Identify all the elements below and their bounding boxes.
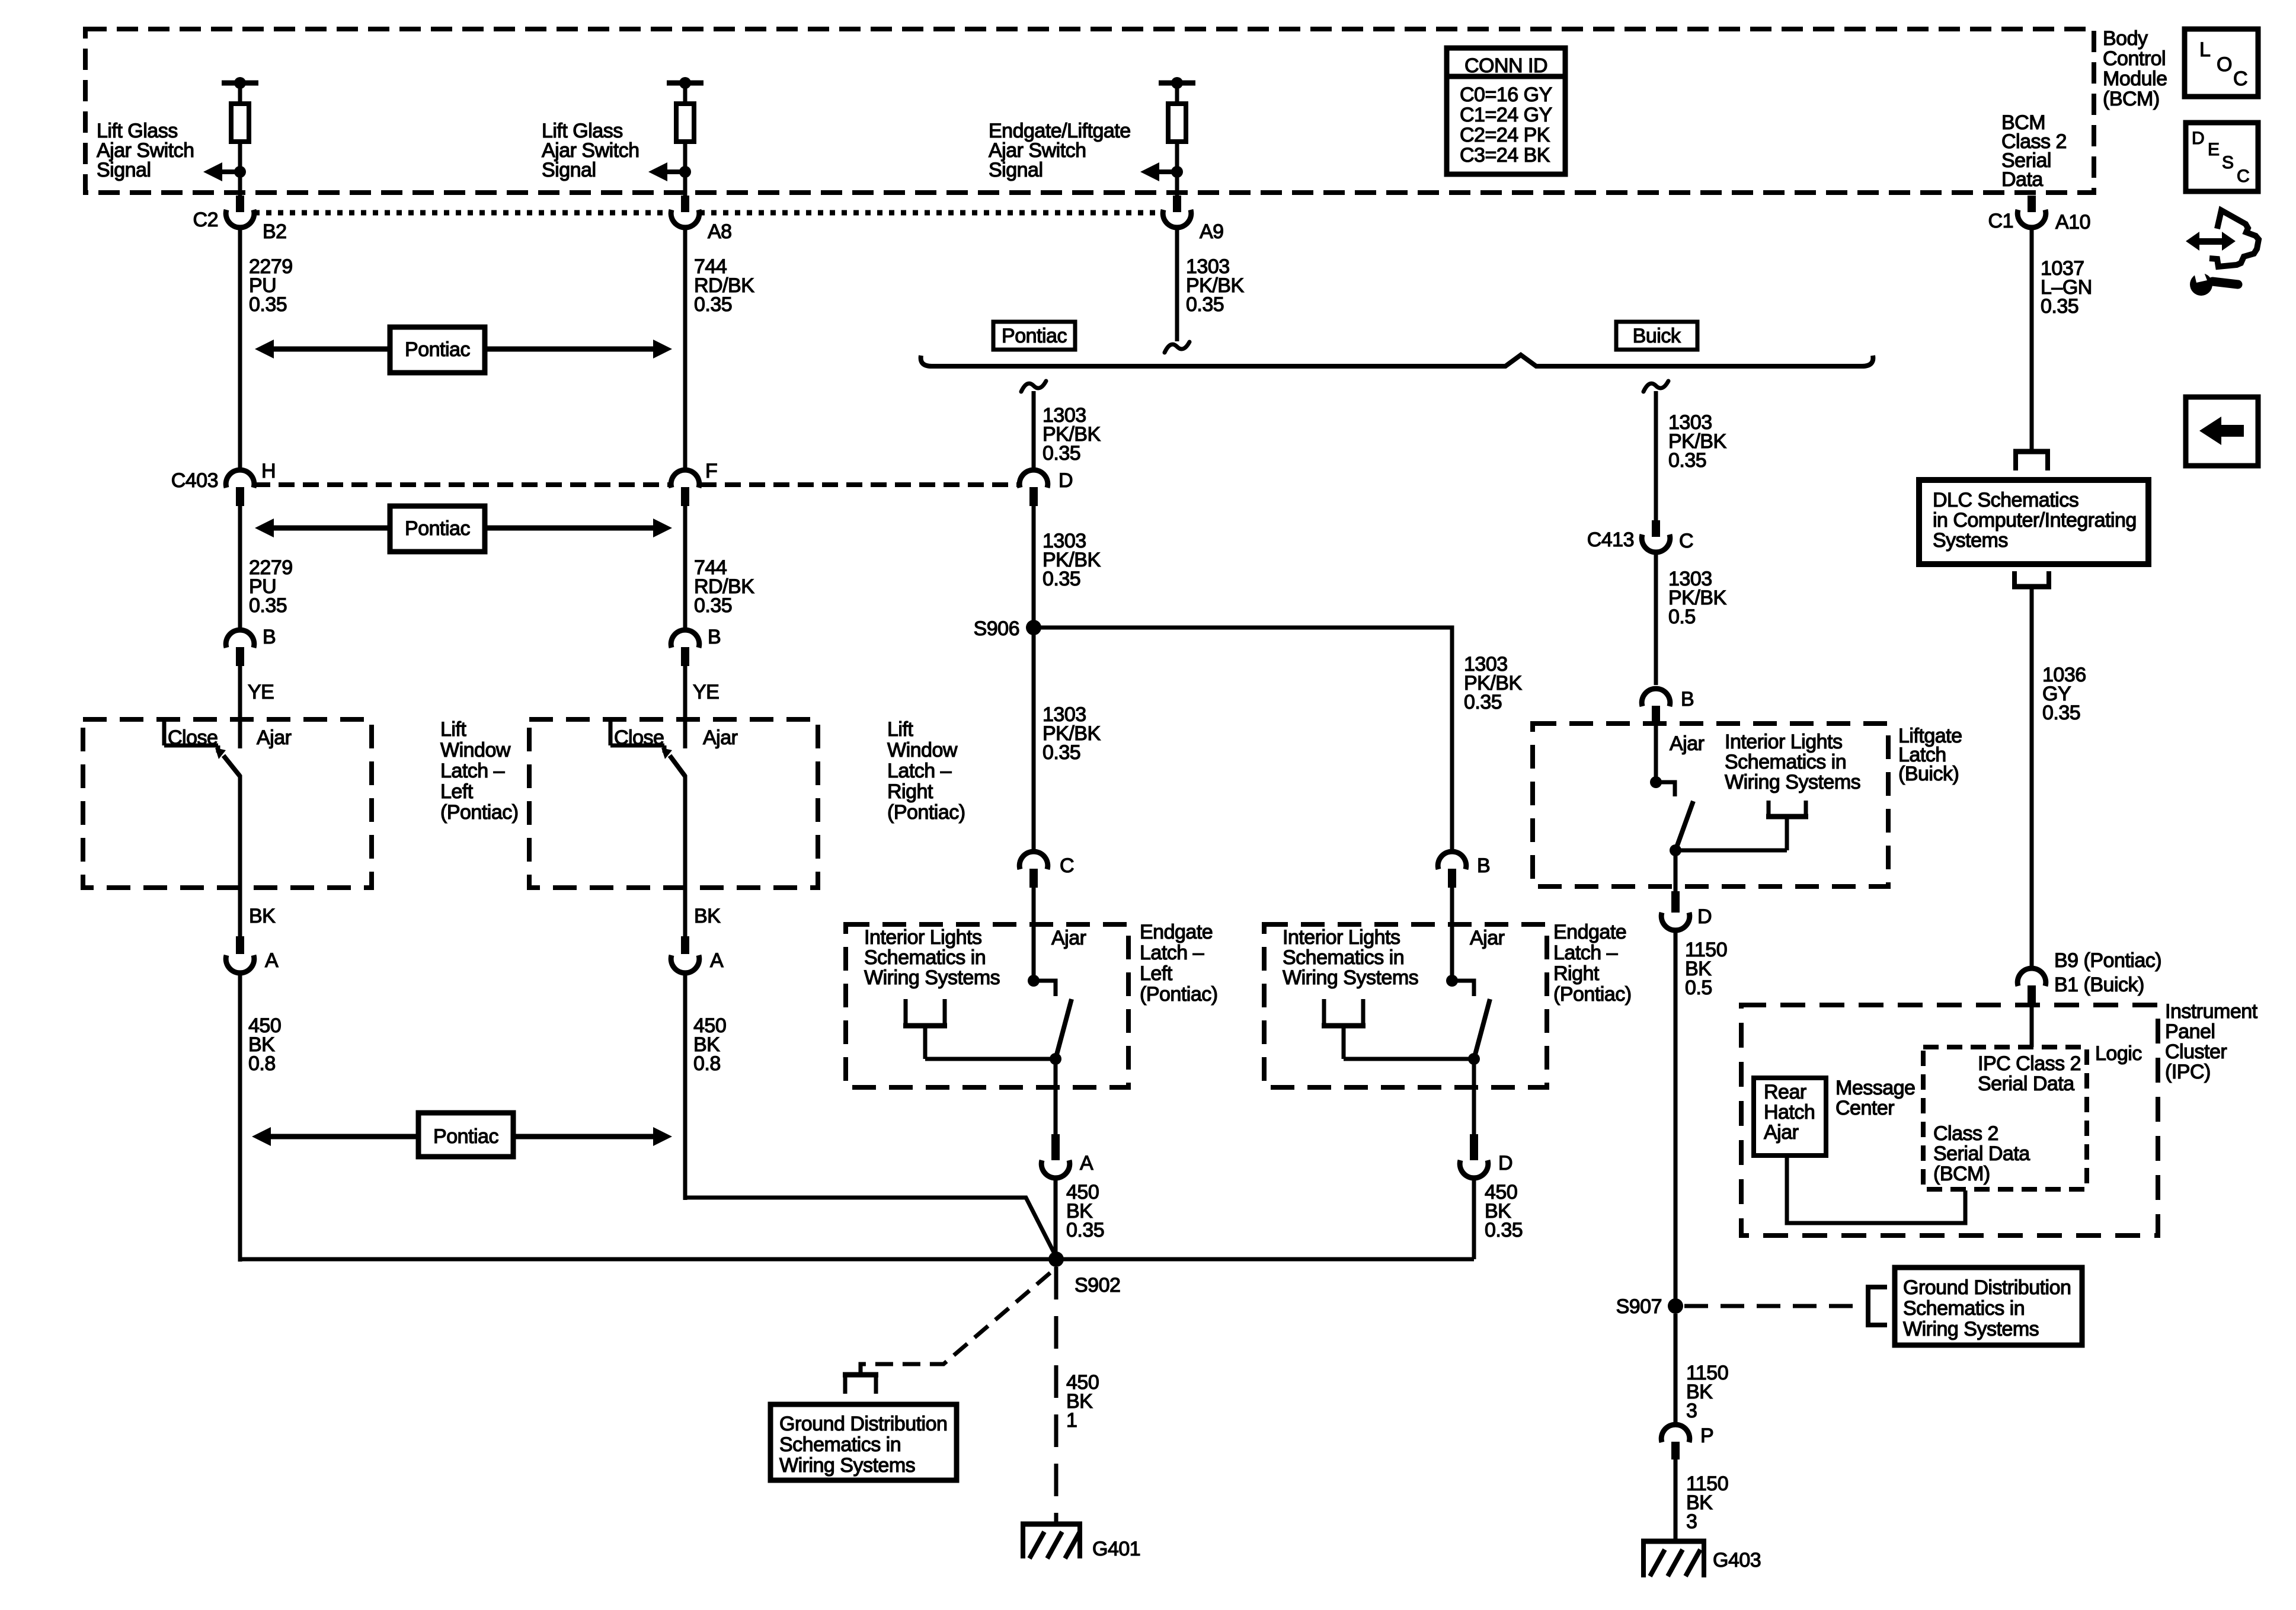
Endgate Latch - Right (Pontiac) dashed box [1264,924,1547,1087]
wire: C into endgate latch left [1032,888,1036,981]
switch (ajar) in endgate latch Right [1446,975,1490,1059]
svg-text:Schematics in: Schematics in [1903,1297,2025,1320]
svg-text:B: B [708,626,721,648]
harness break squiggle at A9 wire end [1165,342,1189,353]
svg-text:Control: Control [2103,47,2166,70]
svg-text:0.8: 0.8 [248,1052,276,1075]
label: Body Control Module (BCM) [2103,27,2167,110]
svg-text:Ajar: Ajar [1051,927,1086,949]
connector A8 [671,196,699,228]
svg-text:P: P [1700,1425,1713,1447]
svg-text:0.35: 0.35 [1485,1219,1523,1241]
svg-text:D: D [2192,129,2204,148]
Instrument Panel Cluster (IPC) dashed box [1741,1005,2158,1235]
junction dot in endgate latch Right [1468,1053,1480,1065]
svg-text:Systems: Systems [1933,529,2008,552]
Pontiac variant arrow (top) [255,327,672,373]
svg-text:Schematics in: Schematics in [864,946,986,969]
svg-text:B9 (Pontiac): B9 (Pontiac) [2054,949,2161,972]
connector C2/B2 [226,196,254,228]
svg-text:Ajar: Ajar [1670,732,1705,755]
svg-text:Signal: Signal [542,159,596,181]
svg-text:(BCM): (BCM) [1933,1163,1990,1185]
wire label 1303 PK/BK 0.35 (Buick drop) [1668,411,1726,472]
label: Lift Window Latch - Left (Pontiac) [440,718,519,824]
dashed branch: S907 to ground distribution bracket [1684,1304,1861,1308]
wire label 450 BK 0.35 (Right) [1485,1181,1523,1241]
svg-text:3: 3 [1686,1510,1697,1533]
Lift Window Latch - Right (Pontiac) dashed box [529,719,818,888]
svg-text:(IPC): (IPC) [2165,1061,2211,1083]
svg-text:A: A [1080,1152,1093,1174]
svg-text:A10: A10 [2055,211,2090,233]
svg-text:Interior Lights: Interior Lights [864,926,982,949]
svg-text:S907: S907 [1616,1295,1662,1318]
wire: S907 to P connector (1150 BK 3) [1674,1314,1678,1425]
svg-text:Pontiac: Pontiac [405,517,470,540]
svg-text:0.5: 0.5 [1685,977,1712,999]
svg-text:B2: B2 [263,220,287,243]
svg-text:0.35: 0.35 [249,293,287,316]
junction dot in liftgate latch [1670,844,1681,856]
svg-text:Cluster: Cluster [2165,1041,2227,1063]
svg-text:Wiring Systems: Wiring Systems [1283,966,1418,989]
label: Lift Glass Ajar Switch Signal (right) [542,120,639,181]
svg-text:Window: Window [887,739,958,761]
svg-text:DLC Schematics: DLC Schematics [1933,489,2078,511]
connector P [1661,1425,1690,1459]
off-page bracket (ground distribution, S902) [843,1375,878,1394]
svg-text:Center: Center [1835,1097,1894,1119]
wire: latch Right to A connector (BK) [683,775,687,936]
svg-text:0.35: 0.35 [1043,568,1080,590]
label: Lift Glass Ajar Switch Signal (left) [97,120,194,181]
dashed branch: S902 to ground distribution bracket [861,1273,1050,1372]
svg-text:Instrument: Instrument [2165,1000,2258,1023]
wire W2: A8 to C403-F [683,227,687,471]
Ground Distribution Schematics in Wiring Systems box (right) [1895,1267,2082,1345]
wire: B into endgate latch right [1450,888,1454,981]
svg-text:Signal: Signal [989,159,1043,181]
svg-text:BK: BK [694,905,721,927]
svg-text:C2: C2 [193,209,218,231]
svg-text:0.35: 0.35 [694,594,732,617]
svg-text:C0=16 GY: C0=16 GY [1460,84,1552,106]
svg-text:A: A [710,949,724,972]
svg-text:Interior Lights: Interior Lights [1725,731,1843,753]
IPC logic dashed box [1923,1047,2087,1189]
wire W1 corner to S902 [240,1257,1056,1262]
splice S907 [1668,1298,1683,1314]
svg-text:A: A [265,949,279,972]
connector C1/A10 [2017,196,2046,228]
wire label 1303 PK/BK 0.35 (A9) [1186,255,1244,316]
switch (close/ajar) in latch Left [164,719,240,776]
wire label 450 BK 1 [1066,1371,1099,1432]
wire label 450 BK 0.8 (Right) [693,1014,726,1075]
wire: S906 down to C connector [1032,628,1036,852]
wire W1: B2 to C403-H [238,227,242,471]
wire label 1303 PK/BK 0.35 (below S906) [1043,703,1101,764]
svg-text:C: C [1679,530,1693,552]
svg-text:Lift: Lift [887,718,913,741]
connector A9 [1163,196,1191,228]
svg-text:Ground Distribution: Ground Distribution [779,1413,947,1435]
svg-text:Schematics in: Schematics in [1283,946,1404,969]
svg-text:Latch –: Latch – [440,760,505,782]
CONN ID table [1447,48,1565,174]
connector B (left lift window latch) [226,630,254,666]
svg-text:0.5: 0.5 [1668,606,1696,628]
svg-text:Ground Distribution: Ground Distribution [1903,1276,2071,1299]
svg-text:0.8: 0.8 [693,1052,721,1075]
connector A (Left latch) [226,936,254,973]
svg-text:0.35: 0.35 [1066,1219,1104,1241]
svg-text:Close: Close [614,726,664,749]
wire: P to G403 (1150 BK 3) [1674,1459,1678,1541]
svg-text:Interior Lights: Interior Lights [1283,926,1400,949]
switch (ajar) in liftgate latch [1650,776,1693,850]
svg-text:Wiring Systems: Wiring Systems [1903,1318,2039,1340]
svg-text:L: L [2199,39,2210,61]
splice S906 [1026,620,1041,635]
junction dot in endgate latch Left [1050,1053,1061,1065]
wire label 1303 PK/BK 0.35 (Pontiac drop) [1043,404,1101,465]
wire: down to S902 row (Left) [1054,1177,1058,1259]
Pontiac variant arrow (bottom) [252,1113,672,1157]
label: BCM Class 2 Serial Data [2001,111,2067,191]
switch (ajar) in endgate latch Left [1028,975,1072,1059]
wire: B into liftgate latch [1654,724,1658,782]
label: Endgate Latch - Right (Pontiac) [1553,921,1632,1006]
Body Control Module (BCM) dashed box [85,29,2094,193]
resistor branch: right lift glass ajar switch (x=1156) [648,77,703,196]
svg-text:0.35: 0.35 [2041,295,2078,318]
connector C403-H [226,470,254,506]
Ground Distribution Schematics in Wiring Systems box (left) [770,1404,957,1480]
wire: DLC to B9/B1 connector (1036 GY 0.35) [2030,587,2034,970]
label: Class 2 Serial Data (BCM) [1933,1122,2030,1185]
Pontiac variant arrow (middle) [255,506,672,552]
svg-text:G403: G403 [1713,1549,1761,1571]
svg-text:0.35: 0.35 [1464,691,1502,713]
svg-text:(Buick): (Buick) [1898,763,1959,785]
svg-text:C: C [2233,68,2247,90]
service icon: double arrow, vehicle outline, wrench [2186,210,2259,296]
label: Lift Window Latch - Right (Pontiac) [887,718,965,824]
svg-text:Message: Message [1835,1077,1915,1099]
svg-text:Rear: Rear [1764,1081,1806,1103]
wire label 744 RD/BK 0.35 (lower) [694,556,754,617]
DLC Schematics in Computer/Integrating Systems box [1919,480,2148,564]
svg-text:Right: Right [887,780,933,803]
svg-text:CONN ID: CONN ID [1464,55,1547,77]
svg-text:0.35: 0.35 [1043,741,1080,764]
splice S902 [1048,1251,1064,1267]
wire W4: A10 down to DLC bracket [2030,227,2034,452]
svg-text:(Pontiac): (Pontiac) [1553,983,1632,1006]
svg-text:Pontiac: Pontiac [1002,325,1067,347]
connector C403-F [671,470,699,506]
svg-text:Latch –: Latch – [887,760,952,782]
back arrow icon box [2186,397,2258,466]
off-page bracket (ground distribution, S907) [1868,1285,1887,1327]
off-page bracket (interior lights, Right endgate) [1322,999,1474,1059]
svg-text:Lift: Lift [440,718,466,741]
dashed harness line (C403 row) [254,482,670,487]
svg-text:Left: Left [1140,962,1173,985]
svg-text:Buick: Buick [1633,325,1681,347]
label: Endgate/Liftgate Ajar Switch Signal [989,120,1131,181]
wire: latch Left to A connector (BK) [238,775,242,936]
dotted harness line (BCM connector row) [254,210,671,216]
harness squiggle (Buick branch top) [1643,381,1668,392]
wire: A connector down (450 BK 0.8) [238,972,242,1262]
svg-text:Schematics in: Schematics in [1725,751,1846,773]
LOC icon box [2185,29,2258,97]
wire label 2279 PU 0.35 (lower) [249,556,293,617]
Endgate Latch - Left (Pontiac) dashed box [846,924,1128,1087]
wire label 450 BK 0.35 (Left) [1066,1181,1104,1241]
svg-text:Endgate: Endgate [1553,921,1626,943]
wire: S906 to right branch [1034,628,1452,852]
svg-text:Right: Right [1553,962,1600,985]
connector B (liftgate latch) [1642,689,1670,724]
svg-text:E: E [2208,140,2220,159]
wire: A connector down (450 BK 0.8) [683,972,687,1200]
Pontiac harness label box [993,322,1075,350]
svg-text:H: H [261,460,276,482]
svg-text:Pontiac: Pontiac [433,1125,498,1148]
wire: D to S906 [1032,506,1036,628]
wire label 1303 PK/BK 0.35 (right of S906) [1464,653,1522,713]
svg-text:YE: YE [248,681,274,703]
connector B9 (Pontiac) / B1 (Buick) [2017,968,2046,1003]
wire: C413 to B connector [1654,552,1658,685]
svg-text:B: B [1477,854,1490,877]
svg-text:D: D [1059,469,1073,492]
svg-text:D: D [1498,1152,1512,1174]
svg-text:(Pontiac): (Pontiac) [1140,983,1218,1006]
svg-text:C3=24 BK: C3=24 BK [1460,144,1550,167]
svg-text:Serial Data: Serial Data [1933,1142,2030,1165]
svg-text:Hatch: Hatch [1764,1101,1815,1124]
wire label 2279 PU 0.35 (upper) [249,255,293,316]
svg-text:Module: Module [2103,68,2167,90]
connector C413-C [1642,520,1670,552]
label: ground distribution text (left) [779,1413,947,1477]
svg-text:C403: C403 [171,469,218,492]
svg-text:0.35: 0.35 [1186,293,1224,316]
svg-text:Wiring Systems: Wiring Systems [864,966,1000,989]
wire W1: B to latch (YE) [238,666,242,748]
off-page bracket (interior lights, Left endgate) [903,999,1056,1059]
svg-text:Schematics in: Schematics in [779,1433,901,1456]
harness brace line with Pontiac and Buick sections [921,355,1873,366]
svg-text:0.35: 0.35 [2042,702,2080,724]
svg-text:0.35: 0.35 [694,293,732,316]
DESC icon box [2186,123,2258,191]
svg-text:Signal: Signal [97,159,151,181]
svg-text:O: O [2217,53,2232,76]
label: DLC schematics text [1933,489,2137,552]
svg-text:(BCM): (BCM) [2103,88,2160,110]
label: IPC Class 2 Serial Data [1978,1052,2081,1095]
Rear Hatch Ajar box [1754,1078,1826,1156]
svg-text:(Pontiac): (Pontiac) [440,801,519,824]
svg-text:Wiring Systems: Wiring Systems [779,1454,915,1477]
resistor branch: endgate/liftgate ajar switch (x=1986) [1140,77,1195,196]
svg-text:0.35: 0.35 [1043,442,1080,465]
wire label 1150 BK 3 (lower) [1686,1473,1728,1533]
svg-text:Ajar: Ajar [1764,1121,1799,1144]
svg-text:S906: S906 [974,617,1019,640]
switch (close/ajar) in latch Right [610,719,685,776]
svg-text:0.35: 0.35 [249,594,287,617]
svg-text:Panel: Panel [2165,1020,2215,1043]
svg-text:B1 (Buick): B1 (Buick) [2054,974,2144,996]
wire W2: C403 to B connector [683,506,687,629]
svg-text:Ajar: Ajar [703,726,738,749]
wire: down to S902 row (Right) [1472,1177,1476,1259]
label: Interior Lights Schematics in Wiring Systems (Right endgate) [1283,926,1418,989]
wire label 1150 BK 3 (upper) [1686,1362,1728,1422]
svg-text:YE: YE [693,681,719,703]
wire label 1037 L-GN 0.35 [2041,257,2092,318]
svg-text:B: B [1681,688,1694,710]
svg-text:C413: C413 [1587,529,1634,551]
wire label 744 RD/BK 0.35 (upper) [694,255,754,316]
svg-text:3: 3 [1686,1400,1697,1422]
wire W2 corner and diagonal to S902 [685,1198,1057,1259]
label: Interior Lights Schematics in Wiring Systems (liftgate) [1725,731,1860,793]
label: Interior Lights Schematics in Wiring Systems (Left endgate) [864,926,1000,989]
off-page bracket above DLC box [2013,442,2050,470]
svg-text:B: B [263,626,276,648]
connector C (endgate latch left) [1019,852,1048,888]
ground G403 [1641,1541,1706,1577]
svg-text:F: F [705,460,717,482]
svg-text:C: C [2237,167,2249,186]
svg-text:Latch –: Latch – [1553,942,1618,964]
svg-text:Data: Data [2001,168,2043,191]
svg-text:Class 2: Class 2 [1933,1122,1998,1145]
label: Rear Hatch Ajar [1764,1081,1815,1144]
label: ground distribution text (right) [1903,1276,2071,1340]
wire: S902 horizontal to endgate right drop [1056,1257,1474,1262]
svg-text:Window: Window [440,739,511,761]
svg-text:Logic: Logic [2095,1042,2142,1065]
connector D (C403 row, Pontiac branch) [1019,470,1048,506]
connector B (right lift window latch) [671,630,699,666]
svg-text:Body: Body [2103,27,2148,50]
svg-text:S902: S902 [1075,1274,1120,1297]
label: Message Center [1835,1077,1915,1119]
svg-text:C1: C1 [1988,210,2013,232]
wire label 1303 PK/BK 0.35 (above S906) [1043,530,1101,590]
svg-text:BK: BK [249,905,276,927]
svg-text:Close: Close [168,726,218,749]
wire W2: B to latch (YE) [683,666,687,748]
svg-text:C: C [1060,854,1074,877]
ground G401 [1021,1524,1082,1558]
connector D (liftgate latch bottom) [1661,891,1690,930]
wire: B9/B1 into IPC logic box [2030,1003,2034,1047]
connector B (endgate latch right) [1438,852,1466,888]
svg-text:1: 1 [1066,1409,1077,1432]
wire: Pontiac branch to D connector [1032,391,1036,471]
wire W1: C403 to B connector [238,506,242,629]
Liftgate Latch (Buick) dashed box [1533,724,1888,886]
svg-text:Left: Left [440,780,474,803]
svg-text:A8: A8 [708,220,732,243]
svg-text:Pontiac: Pontiac [405,338,470,361]
svg-text:in Computer/Integrating: in Computer/Integrating [1933,509,2137,532]
label: Instrument Panel Cluster (IPC) [2165,1000,2258,1083]
wire: Buick branch to C413 [1654,391,1658,520]
svg-text:C2=24 PK: C2=24 PK [1460,124,1550,146]
svg-text:C1=24 GY: C1=24 GY [1460,104,1552,126]
wire label 1150 BK 0.5 [1685,939,1727,999]
harness squiggle (Pontiac branch top) [1021,381,1046,392]
Lift Window Latch - Left (Pontiac) dashed box [83,719,372,888]
connector A (endgate latch Left bottom) [1041,1134,1070,1178]
wire: liftgate latch to D connector [1674,850,1678,895]
wire: endgate latch Left to connector [1054,1059,1058,1134]
svg-text:Endgate: Endgate [1140,921,1213,943]
wire label 1036 GY 0.35 [2042,664,2086,724]
off-page bracket below DLC box [2012,571,2051,587]
svg-text:0.35: 0.35 [1668,449,1706,472]
label: Endgate Latch - Left (Pontiac) [1140,921,1218,1006]
svg-text:S: S [2222,153,2234,172]
svg-text:G401: G401 [1092,1538,1140,1560]
svg-text:A9: A9 [1200,220,1224,243]
wire: endgate latch Right to connector [1472,1059,1476,1134]
connector A (Right latch) [671,936,699,973]
Buick harness label box [1616,322,1697,350]
label: Liftgate Latch (Buick) [1898,725,1962,785]
wire: Rear Hatch Ajar to Class 2 Serial Data (BCM) [1787,1156,1965,1223]
svg-text:(Pontiac): (Pontiac) [887,801,965,824]
wire: D to S907 (1150 BK 0.5) [1674,930,1678,1306]
svg-text:Ajar: Ajar [257,726,292,749]
svg-text:IPC Class 2: IPC Class 2 [1978,1052,2081,1075]
wire label 1303 PK/BK 0.5 [1668,568,1726,628]
off-page bracket (interior lights, liftgate) [1675,801,1808,850]
dashed wire: S902 to G401 (450 BK 1) [1054,1267,1059,1522]
svg-text:Latch –: Latch – [1140,942,1204,964]
svg-text:Serial Data: Serial Data [1978,1073,2074,1095]
svg-text:D: D [1697,905,1712,928]
resistor branch: left lift glass ajar switch (x=405) [203,77,258,196]
connector D (endgate latch Right bottom) [1460,1134,1488,1178]
wire label 450 BK 0.8 (Left) [248,1014,281,1075]
wire W3: A9 down to harness break [1175,227,1179,341]
svg-text:Ajar: Ajar [1470,927,1505,949]
svg-text:Wiring Systems: Wiring Systems [1725,771,1860,793]
